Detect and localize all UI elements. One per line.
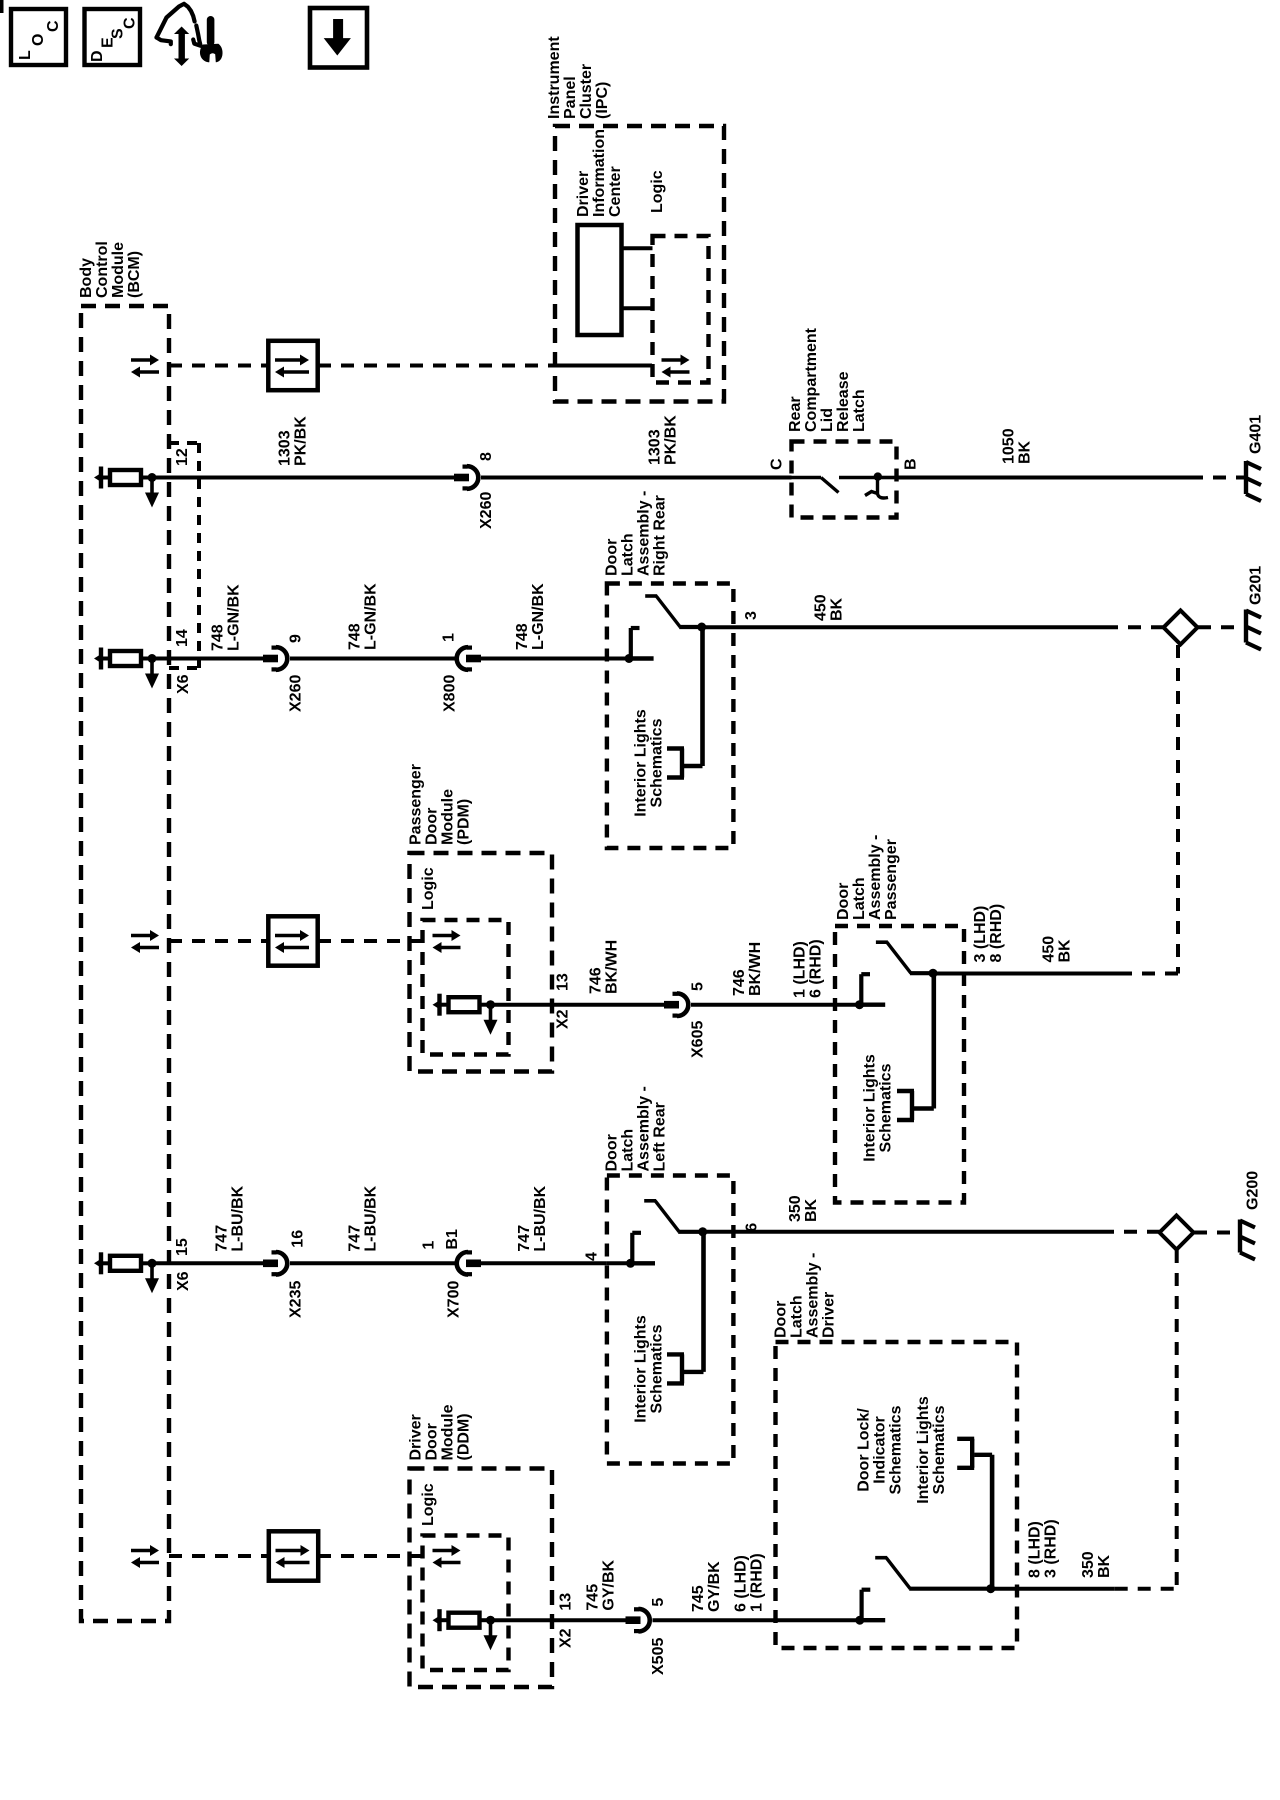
label pin 6 LR bbox=[744, 1223, 761, 1232]
serial data box row1 bbox=[268, 341, 317, 390]
label pin 4 LR bbox=[584, 1252, 601, 1261]
label wire 748 L-GN/BK b bbox=[347, 583, 380, 650]
latch switch right rear bbox=[625, 596, 707, 663]
svg-text:C: C bbox=[45, 20, 62, 32]
latch switch rear lid bbox=[792, 472, 889, 498]
label pin 8 LHD 3 RHD bbox=[1027, 1519, 1060, 1578]
svg-text:4: 4 bbox=[584, 1252, 601, 1261]
door latch assembly right rear box bbox=[607, 584, 734, 849]
door latch assembly passenger box bbox=[835, 926, 964, 1203]
svg-text:X605: X605 bbox=[690, 1021, 707, 1058]
schematic bracket RR bbox=[667, 749, 684, 778]
svg-text:5: 5 bbox=[650, 1598, 667, 1607]
wire ground bus G201 vertical bbox=[1119, 645, 1178, 974]
BCM driver pin 15 bbox=[94, 1252, 159, 1293]
wire 1303 PK/BK X260 to latch bbox=[481, 476, 792, 480]
svg-text:14: 14 bbox=[174, 629, 191, 647]
label DDM Logic bbox=[420, 1483, 437, 1526]
label Interior Lights Schematics LR bbox=[633, 1315, 666, 1423]
svg-text:G201: G201 bbox=[1248, 566, 1265, 605]
module IPC box bbox=[555, 126, 724, 402]
svg-text:Logic: Logic bbox=[649, 170, 666, 213]
svg-text:8 (LHD)3 (RHD): 8 (LHD)3 (RHD) bbox=[1027, 1519, 1060, 1578]
label Door Latch Assembly Passenger bbox=[835, 835, 900, 920]
DESC button bbox=[85, 9, 141, 65]
serial data box row5 bbox=[269, 1531, 318, 1580]
svg-text:6 (LHD)1 (RHD): 6 (LHD)1 (RHD) bbox=[733, 1553, 766, 1612]
latch D door lock tap bbox=[974, 1455, 992, 1588]
label X235 bbox=[288, 1281, 305, 1318]
connector X505 pin 5 bbox=[626, 1607, 650, 1633]
vehicle adjust icon bbox=[157, 4, 223, 66]
serial data box row3 bbox=[268, 916, 317, 965]
wire latch P entry bbox=[835, 1003, 860, 1007]
svg-text:13: 13 bbox=[555, 973, 572, 991]
svg-text:5: 5 bbox=[690, 982, 707, 991]
svg-text:Logic: Logic bbox=[420, 867, 437, 910]
svg-text:450BK: 450BK bbox=[813, 594, 846, 621]
wire 745 X505 to latch bbox=[653, 1618, 776, 1622]
label pin B1 X700 bbox=[444, 1229, 461, 1250]
wire 746 PDM to X605 bbox=[491, 1003, 666, 1007]
label wire 1303 PK/BK b bbox=[647, 415, 680, 465]
wire serial bus row5 to DDM bbox=[318, 1554, 422, 1558]
wire 450 BK RR bbox=[702, 625, 1105, 629]
connector X800 pin 1 bbox=[457, 646, 481, 672]
svg-text:Door Lock/IndicatorSchematics: Door Lock/IndicatorSchematics bbox=[856, 1405, 905, 1494]
scan artifact top-left bbox=[0, 0, 4, 13]
label pin 13 PDM bbox=[555, 973, 572, 991]
label pin 3 RR bbox=[743, 611, 760, 620]
connector X700 pin 1 B1 bbox=[457, 1250, 481, 1276]
latch switch left rear bbox=[626, 1201, 707, 1268]
label pin B bbox=[903, 458, 920, 470]
label X605 bbox=[690, 1021, 707, 1058]
DIC display box bbox=[578, 225, 622, 335]
wire 450 BK RR dashed bbox=[1105, 625, 1164, 629]
label wire 748 L-GN/BK a bbox=[210, 584, 243, 651]
label pin C bbox=[769, 458, 786, 470]
wire 745 DDM to X505 bbox=[491, 1618, 627, 1622]
wire latch D entry bbox=[776, 1618, 860, 1622]
label pin 1 X800 bbox=[441, 633, 458, 642]
wire DIC to logic lower bbox=[622, 306, 653, 310]
svg-text:3: 3 bbox=[743, 611, 760, 620]
wire 350 BK D bbox=[990, 1587, 1115, 1591]
svg-text:B: B bbox=[903, 458, 920, 470]
svg-text:450BK: 450BK bbox=[1041, 936, 1074, 963]
label X505 bbox=[650, 1638, 667, 1675]
label wire 746 BK/WH a bbox=[588, 940, 621, 994]
label Driver Door Module (DDM) bbox=[408, 1404, 473, 1460]
svg-text:X260: X260 bbox=[478, 492, 495, 529]
svg-text:1 (LHD)6 (RHD): 1 (LHD)6 (RHD) bbox=[792, 939, 825, 998]
IPC logic box bbox=[653, 236, 709, 383]
label wire 1303 PK/BK a bbox=[277, 416, 310, 466]
label wire 747 L-BU/BK c bbox=[516, 1185, 549, 1251]
label pin 6 LHD 1 RHD bbox=[733, 1553, 766, 1612]
label Door Lock Indicator Schematics bbox=[856, 1405, 905, 1494]
BCM serial data arrows row3 bbox=[131, 930, 159, 953]
label pin 16 bbox=[290, 1230, 307, 1248]
label Door Latch Assembly Driver bbox=[773, 1253, 838, 1338]
ground G401 bbox=[1246, 461, 1261, 501]
label pin 9 bbox=[288, 634, 305, 643]
ground G201 bbox=[1246, 610, 1261, 650]
module PDM box bbox=[410, 853, 553, 1072]
label Instrument Panel Cluster (IPC) bbox=[546, 36, 611, 119]
label PDM Logic bbox=[420, 867, 437, 910]
label pin 14 bbox=[174, 629, 191, 647]
svg-text:X260: X260 bbox=[288, 675, 305, 712]
svg-text:C: C bbox=[769, 458, 786, 470]
door latch assembly driver box bbox=[776, 1342, 1018, 1648]
connector X6 pin box bbox=[169, 443, 199, 668]
module DDM box bbox=[410, 1469, 553, 1688]
label wire 350 BK D bbox=[1080, 1551, 1113, 1578]
wire serial bus row1 BCM to splice box bbox=[169, 364, 268, 368]
label X260 row2 bbox=[288, 675, 305, 712]
svg-text:X235: X235 bbox=[288, 1281, 305, 1318]
label wire 745 GY/BK a bbox=[585, 1559, 618, 1610]
latch switch driver bbox=[855, 1558, 995, 1625]
label Rear Compartment Lid Release Latch bbox=[787, 327, 868, 432]
label wire 745 GY/BK b bbox=[690, 1561, 723, 1612]
label pin 5 X505 bbox=[650, 1598, 667, 1607]
schematic bracket D bbox=[957, 1439, 974, 1468]
svg-text:X2: X2 bbox=[555, 1009, 572, 1029]
svg-text:8: 8 bbox=[478, 452, 495, 461]
wire serial bus row3 BCM to splice box bbox=[169, 939, 268, 943]
svg-text:16: 16 bbox=[290, 1230, 307, 1248]
label Interior Lights Schematics RR bbox=[633, 709, 666, 817]
label Door Latch Assembly Right Rear bbox=[604, 491, 669, 576]
label Body Control Module (BCM) bbox=[78, 241, 143, 298]
svg-text:X6: X6 bbox=[175, 1271, 192, 1291]
IPC logic serial arrows bbox=[662, 355, 690, 378]
label wire 747 L-BU/BK b bbox=[347, 1185, 380, 1251]
wire 748 BCM to X260 bbox=[152, 657, 263, 661]
label wire 748 L-GN/BK c bbox=[514, 583, 547, 650]
BCM serial data arrows row1 bbox=[131, 355, 159, 378]
splice diamond G201 bbox=[1164, 610, 1198, 644]
svg-text:13: 13 bbox=[558, 1593, 575, 1611]
wire 350 BK LR dashed bbox=[1101, 1230, 1160, 1234]
label X6 row4 bbox=[175, 1271, 192, 1291]
schematic bracket P bbox=[897, 1091, 914, 1120]
label wire 350 BK LR bbox=[787, 1195, 820, 1222]
wire 748 X260 to X800 bbox=[290, 657, 455, 661]
label X700 bbox=[446, 1281, 463, 1318]
label IPC Logic bbox=[649, 170, 666, 213]
rear compartment lid release latch box bbox=[792, 442, 897, 518]
latch switch passenger bbox=[855, 942, 938, 1009]
wire 747 BCM to X235 bbox=[152, 1261, 263, 1265]
label pin 15 bbox=[174, 1238, 191, 1256]
wire latch to B bbox=[881, 476, 897, 480]
wire serial bus row3 to PDM bbox=[318, 939, 422, 943]
svg-text:350BK: 350BK bbox=[1080, 1551, 1113, 1578]
DDM driver pin bbox=[433, 1609, 498, 1650]
svg-text:3 (LHD)8 (RHD): 3 (LHD)8 (RHD) bbox=[972, 904, 1005, 963]
ground G200 bbox=[1240, 1220, 1255, 1260]
svg-text:D: D bbox=[89, 50, 106, 62]
splice diamond G200 bbox=[1160, 1216, 1194, 1250]
PDM driver pin bbox=[433, 994, 498, 1035]
svg-text:O: O bbox=[30, 34, 47, 46]
connector X260 pin 9 bbox=[263, 646, 287, 672]
wire 350 BK LR bbox=[703, 1230, 1101, 1234]
svg-text:G401: G401 bbox=[1248, 415, 1265, 454]
svg-text:1: 1 bbox=[421, 1241, 438, 1250]
label X6 row2 bbox=[175, 674, 192, 694]
DDM logic box bbox=[423, 1536, 509, 1671]
label Passenger Door Module (PDM) bbox=[408, 764, 473, 845]
label pin 8 bbox=[478, 452, 495, 461]
wire serial bus row1 to IPC bbox=[318, 364, 555, 368]
wire serial bus row1 inside IPC bbox=[555, 364, 652, 368]
svg-text:X2: X2 bbox=[558, 1628, 575, 1648]
connector X260 pin 8 bbox=[454, 465, 478, 491]
wire 748 X800 to latch bbox=[481, 657, 607, 661]
door latch assembly left rear box bbox=[607, 1176, 734, 1464]
label X260 row1 bbox=[478, 492, 495, 529]
svg-text:G200: G200 bbox=[1245, 1171, 1262, 1210]
connector X605 pin 5 bbox=[664, 992, 688, 1018]
BCM serial data arrows row5 bbox=[131, 1545, 159, 1568]
wire DIC to logic upper bbox=[622, 246, 653, 250]
svg-text:Interior LightsSchematics: Interior LightsSchematics bbox=[633, 709, 666, 817]
PDM logic box bbox=[423, 920, 509, 1055]
label wire 747 L-BU/BK a bbox=[214, 1185, 247, 1251]
latch RR interior lights tap bbox=[684, 627, 703, 766]
wire 746 X605 to latch bbox=[691, 1003, 835, 1007]
svg-text:L: L bbox=[17, 50, 34, 60]
label pin 3 LHD 8 RHD bbox=[972, 904, 1005, 963]
label X800 bbox=[442, 675, 459, 712]
module BCM box bbox=[81, 306, 169, 1621]
DDM logic serial arrows bbox=[433, 1545, 461, 1568]
svg-text:X800: X800 bbox=[442, 675, 459, 712]
wire serial bus row5 BCM to splice box bbox=[169, 1554, 269, 1558]
label wire 450 BK RR bbox=[813, 594, 846, 621]
label pin 1 X700 bbox=[421, 1241, 438, 1250]
latch LR interior lights tap bbox=[684, 1231, 704, 1372]
label wire 746 BK/WH b bbox=[731, 942, 764, 996]
label G201 bbox=[1248, 566, 1265, 605]
svg-text:15: 15 bbox=[174, 1238, 191, 1256]
LOC button bbox=[11, 9, 66, 65]
wire latch LR entry bbox=[607, 1261, 631, 1265]
label pin 1 LHD 6 RHD bbox=[792, 939, 825, 998]
BCM driver pin 14 bbox=[94, 648, 159, 689]
schematic bracket LR bbox=[667, 1354, 684, 1383]
svg-text:Interior LightsSchematics: Interior LightsSchematics bbox=[862, 1054, 895, 1162]
label X2 PDM bbox=[555, 1009, 572, 1029]
wire 747 X235 to X700 bbox=[290, 1261, 455, 1265]
wire 450 BK P bbox=[933, 972, 1119, 976]
label Interior Lights Schematics D bbox=[915, 1396, 948, 1504]
label pin 13 DDM bbox=[558, 1593, 575, 1611]
label wire 450 BK P bbox=[1041, 936, 1074, 963]
label X2 DDM bbox=[558, 1628, 575, 1648]
label Door Latch Assembly Left Rear bbox=[604, 1086, 669, 1171]
wire 1050 BK bbox=[897, 476, 1191, 480]
svg-text:X6: X6 bbox=[175, 674, 192, 694]
svg-text:Interior LightsSchematics: Interior LightsSchematics bbox=[633, 1315, 666, 1423]
label Interior Lights Schematics P bbox=[862, 1054, 895, 1162]
svg-text:1: 1 bbox=[441, 633, 458, 642]
wire diamond to G201 bbox=[1198, 625, 1244, 629]
download button bbox=[310, 8, 367, 68]
svg-text:350BK: 350BK bbox=[787, 1195, 820, 1222]
latch P interior lights tap bbox=[914, 972, 934, 1109]
BCM driver pin 12 bbox=[94, 467, 159, 508]
wire latch RR entry bbox=[607, 657, 629, 661]
svg-text:C: C bbox=[122, 17, 139, 29]
svg-text:12: 12 bbox=[174, 448, 191, 466]
svg-text:X700: X700 bbox=[446, 1281, 463, 1318]
wire diamond to G200 bbox=[1194, 1231, 1237, 1235]
svg-text:B1: B1 bbox=[444, 1229, 461, 1250]
label Driver Information Center bbox=[575, 129, 624, 217]
wire ground bus G200 vertical bbox=[1115, 1250, 1177, 1589]
label pin 12 bbox=[174, 448, 191, 466]
wire 747 X700 to latch bbox=[481, 1261, 607, 1265]
svg-text:X505: X505 bbox=[650, 1638, 667, 1675]
svg-text:Logic: Logic bbox=[420, 1483, 437, 1526]
wire 1303 PK/BK BCM to X260 bbox=[152, 476, 454, 480]
label pin 5 X605 bbox=[690, 982, 707, 991]
label wire 1050 BK bbox=[1001, 428, 1034, 464]
PDM logic serial arrows bbox=[433, 930, 461, 953]
svg-text:Interior LightsSchematics: Interior LightsSchematics bbox=[915, 1396, 948, 1504]
wire 1050 BK dashed to ground bbox=[1190, 476, 1244, 480]
svg-text:9: 9 bbox=[288, 634, 305, 643]
label G401 bbox=[1248, 415, 1265, 454]
connector X235 pin 16 bbox=[263, 1250, 287, 1276]
label G200 bbox=[1245, 1171, 1262, 1210]
